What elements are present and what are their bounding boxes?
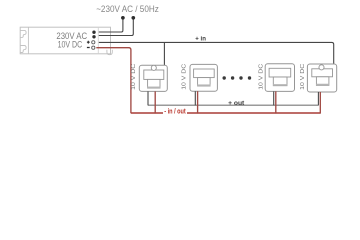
lamp 1 black out wire [147,91,149,105]
lamp 3 body wide [269,68,291,77]
+in drop wire to lamp 1 [163,42,165,65]
lamp 4 body wide [312,69,333,77]
red -in/out rail [131,112,320,114]
lamp 3 trim band [273,84,287,86]
AC terminal dot L [92,31,95,34]
power supply / driver U1 body [20,27,110,54]
svg-text:10 V DC: 10 V DC [258,63,264,90]
AC wire N [99,19,134,36]
lamp 2 trim band [197,84,210,86]
lamp 3 box [265,64,294,92]
lamp 1 knob circle [151,65,156,70]
svg-text:10 V DC: 10 V DC [300,63,306,90]
AC wire L [99,19,123,32]
+out rail [148,104,318,106]
DC terminal circle - [92,46,95,49]
lamp 1 red wire [154,91,156,113]
driver terminal block separator [97,27,99,54]
lamp 4 box [307,64,336,92]
DC terminal circle + [92,41,95,44]
AC feed dot L [121,16,125,20]
lamp 4 body narrow [316,77,329,86]
polarity plus mark [87,41,90,44]
lamp 1 body narrow [148,79,160,88]
lamp 3 black out wire [273,91,275,105]
lamp 2 body narrow [198,78,211,86]
lamp 2 body wide [194,69,215,78]
lamp 2 box [190,64,217,91]
lamp 3 body narrow [273,77,287,86]
label - in / out background [163,108,187,115]
driver keyhole slot 1 [20,30,26,37]
lamp 1 trim band [147,86,160,88]
-dc red wire from driver [96,48,131,114]
lamp 2 black out wire [194,91,196,105]
svg-text:+ out: + out [228,100,245,107]
lamp 2 red wire [197,91,199,113]
lamp 4 black out wire [317,92,319,105]
lamp 3 red wire [275,91,277,113]
svg-text:10 V DC: 10 V DC [181,63,187,90]
lamp 4 red wire [319,92,321,114]
driver keyhole slot 2 [20,46,26,53]
AC feed dot N [131,16,135,20]
driver mounting bracket strip [27,27,29,54]
ellipsis dots [223,76,226,79]
driver cable clamp tab [107,50,112,55]
lamp 1 body wide [144,70,164,79]
svg-text:10 V DC: 10 V DC [131,63,137,90]
svg-text:~230V AC / 50Hz: ~230V AC / 50Hz [96,4,159,14]
polarity minus mark [87,47,90,49]
lamp 4 trim band [316,84,329,86]
svg-text:+ in: + in [195,36,206,43]
lamp 4 knob circle [319,65,324,70]
svg-text:- in / out: - in / out [164,108,186,115]
svg-text:10V DC: 10V DC [58,40,83,50]
+in rail wire [99,42,334,64]
lamp 1 box [139,65,167,91]
AC terminal dot N [92,35,95,38]
